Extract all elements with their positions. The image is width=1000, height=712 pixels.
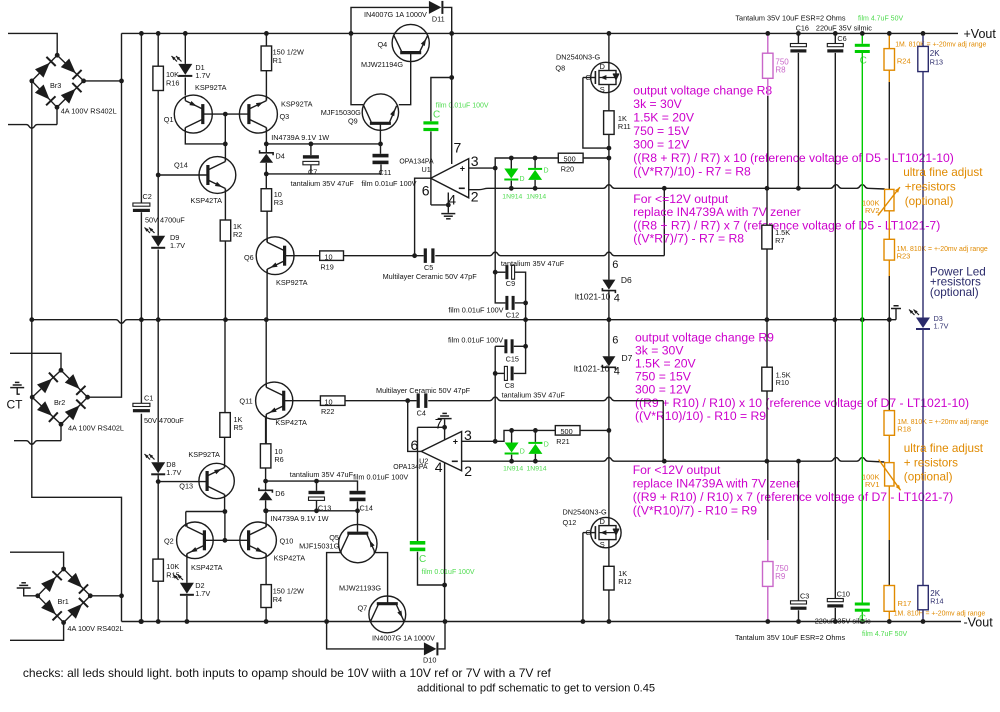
wire U1 pin2 rail <box>469 185 885 190</box>
svg-text:4A 100V RS402L: 4A 100V RS402L <box>61 106 117 115</box>
svg-text:MJW21193G: MJW21193G <box>339 584 381 593</box>
svg-text:IN4007G 1A 1000V: IN4007G 1A 1000V <box>364 10 427 19</box>
svg-text:+resistors: +resistors <box>905 181 956 194</box>
wire pin3 column down <box>494 168 496 272</box>
wire Q13 emitter down <box>224 495 226 512</box>
svg-text:KSP92TA: KSP92TA <box>188 450 220 459</box>
wire Q10 collector up <box>265 511 267 527</box>
svg-text:3k = 30V: 3k = 30V <box>635 344 684 358</box>
op-amp U1 OPA134PA <box>431 159 469 198</box>
svg-text:IN4739A 9.1V 1W: IN4739A 9.1V 1W <box>271 133 329 142</box>
wire Q2 emitter to D2 <box>186 554 188 583</box>
svg-text:2: 2 <box>471 189 479 205</box>
svg-text:7: 7 <box>454 139 462 155</box>
svg-text:1M. 810K = +-20mv adj range: 1M. 810K = +-20mv adj range <box>895 41 986 48</box>
svg-text:C11: C11 <box>379 168 392 177</box>
svg-text:DN2540N3-G: DN2540N3-G <box>556 53 601 62</box>
svg-text:R20: R20 <box>561 164 574 173</box>
resistor R2 <box>220 220 231 241</box>
node test point tick on mid rail <box>891 306 901 309</box>
wire U2 pin2 rail 461 <box>462 458 885 462</box>
resistor R13 (navy) <box>922 33 924 46</box>
wire U1 pin4 and ground <box>431 193 448 205</box>
ground Br1 left <box>17 587 31 589</box>
svg-text:Q4: Q4 <box>378 40 388 49</box>
svg-text:1.7V: 1.7V <box>934 322 949 331</box>
resistor R3 <box>265 174 267 189</box>
capacitor C5 multilayer <box>424 248 427 263</box>
svg-text:Q1: Q1 <box>164 115 174 124</box>
ground U1 <box>441 213 455 215</box>
junction dots bottom rail <box>139 619 144 624</box>
wire R5 to mid rail <box>224 320 226 413</box>
transistor Q11 KSP42TA <box>256 382 293 419</box>
wire rail400 right with hops <box>428 397 663 401</box>
transistor Q3 KSP92TA <box>239 95 277 133</box>
svg-text:1.5K = 20V: 1.5K = 20V <box>635 357 697 371</box>
svg-text:Tantalum 35V 10uF ESR=2 Ohms: Tantalum 35V 10uF ESR=2 Ohms <box>735 13 845 22</box>
svg-text:lt1021-10: lt1021-10 <box>575 291 611 301</box>
svg-text:Q6: Q6 <box>244 253 254 262</box>
capacitor C15 film <box>495 345 504 347</box>
wire Q8 drain from +rail <box>608 33 610 62</box>
wire C15 column from mid rail <box>525 320 527 347</box>
wire zener row lower <box>266 173 381 175</box>
svg-text:lt1021-10: lt1021-10 <box>574 364 610 374</box>
svg-text:750 = 15V: 750 = 15V <box>633 124 690 138</box>
wire +V top rail <box>122 32 959 34</box>
led D1 <box>178 64 192 75</box>
svg-text:KSP42TA: KSP42TA <box>191 563 223 572</box>
capacitor C12 film <box>495 272 505 303</box>
svg-text:3k = 30V: 3k = 30V <box>633 97 682 111</box>
wire -V bottom rail <box>122 621 962 623</box>
transistor Q8 DN2540N3-G MOSFET <box>591 62 621 92</box>
resistor R24 (orange) <box>888 33 890 48</box>
wire R21 net <box>495 430 555 441</box>
wire Q6 emitter to mid rail <box>266 269 268 320</box>
wire R21 to D7 column <box>580 429 609 431</box>
ground U2 (inverted) <box>438 418 452 420</box>
capacitor C6 <box>834 33 836 43</box>
svg-text:R12: R12 <box>618 577 631 586</box>
svg-text:C: C <box>419 554 426 565</box>
svg-text:D: D <box>600 517 606 526</box>
wire Q6 collector to R3 <box>266 211 268 242</box>
svg-text:U1: U1 <box>422 165 431 174</box>
svg-text:CT: CT <box>7 398 24 412</box>
svg-text:R9: R9 <box>775 572 786 581</box>
svg-text:film 0.01uF 100V: film 0.01uF 100V <box>448 336 503 345</box>
svg-text:C12: C12 <box>506 310 519 319</box>
wire zener row upper <box>266 143 380 145</box>
wire Q8 gate return <box>583 78 609 149</box>
potentiometer RV1 100K (orange) <box>885 463 894 486</box>
wire R18 to RV1 <box>888 435 890 462</box>
wire Q14 base <box>158 174 208 176</box>
svg-text:KSP42TA: KSP42TA <box>191 196 223 205</box>
svg-text:+Vout: +Vout <box>964 27 997 41</box>
svg-text:R17: R17 <box>898 599 912 608</box>
wire green film column <box>861 33 863 43</box>
svg-text:tantalium 35V 47uF: tantalium 35V 47uF <box>290 470 354 479</box>
svg-text:film 0.01uF 100V: film 0.01uF 100V <box>422 569 475 576</box>
zener D4 <box>265 144 267 153</box>
capacitor C10 <box>827 599 843 602</box>
svg-text:film 0.01uF 100V: film 0.01uF 100V <box>353 473 408 482</box>
svg-text:C14: C14 <box>360 504 373 513</box>
svg-text:((V*R7)/7) - R7 = R8: ((V*R7)/7) - R7 = R8 <box>633 232 744 246</box>
wire R11 down <box>608 134 610 279</box>
capacitor film 4.7uF green (top) <box>855 44 870 47</box>
wire Q1 emitter to junction <box>185 128 225 144</box>
svg-text:replace IN4739A with 7V zener: replace IN4739A with 7V zener <box>633 205 800 219</box>
wire R6 to zener junction <box>265 468 267 481</box>
wire AC stub lower (hop over CT vertical) <box>8 125 57 129</box>
svg-text:R11: R11 <box>618 122 631 131</box>
svg-text:3: 3 <box>471 153 479 169</box>
capacitor C14 film <box>350 491 366 495</box>
resistor R5 <box>220 413 231 438</box>
svg-text:300 = 12V: 300 = 12V <box>633 137 690 151</box>
svg-text:4A 100V RS402L: 4A 100V RS402L <box>67 624 123 633</box>
junction dots mid rail <box>29 317 34 322</box>
wire U1 output to rail256 <box>415 178 431 256</box>
wire Q2 base to Q10 <box>204 539 248 541</box>
svg-text:D10: D10 <box>423 655 436 664</box>
svg-text:2: 2 <box>464 463 472 479</box>
resistor R10 <box>766 320 768 368</box>
svg-text:S: S <box>600 540 605 549</box>
svg-text:C5: C5 <box>424 263 433 272</box>
svg-text:50V 4700uF: 50V 4700uF <box>144 416 184 425</box>
capacitor C4 multilayer <box>417 393 420 408</box>
led D8 <box>151 462 165 473</box>
led D3 (navy) <box>916 318 930 329</box>
svg-text:R1: R1 <box>273 56 282 65</box>
svg-text:4: 4 <box>435 459 443 475</box>
svg-text:4A 100V RS402L: 4A 100V RS402L <box>68 423 124 432</box>
svg-text:7: 7 <box>435 415 443 431</box>
transistor Q2 KSP42TA <box>177 522 214 559</box>
svg-text:D4: D4 <box>276 151 285 160</box>
wire D3 down to R14 <box>922 330 924 586</box>
led D9 <box>151 236 165 247</box>
wire U1 pin3 <box>469 167 496 169</box>
wire R17 to -rail <box>888 611 890 621</box>
capacitor C2 <box>133 203 150 206</box>
svg-text:Q11: Q11 <box>239 396 252 405</box>
capacitor C7 tantalum <box>310 144 312 155</box>
wire Q14 collector up <box>224 144 226 162</box>
svg-text:For <=12V output: For <=12V output <box>633 192 728 206</box>
svg-text:R22: R22 <box>321 407 334 416</box>
wire Q12 gate down <box>582 533 584 622</box>
svg-text:1M. 810H = +-20mv adj range: 1M. 810H = +-20mv adj range <box>894 611 986 618</box>
wire zener row lower (bottom half) <box>266 510 358 512</box>
wire opamp U1 output rail <box>344 255 424 257</box>
wire pin3' column down to U2 <box>494 373 496 441</box>
capacitor C11 film <box>380 144 382 154</box>
wire Br2 top AC lead <box>10 353 61 370</box>
wire Br1 bottom AC lead <box>10 623 64 641</box>
svg-text:(optional): (optional) <box>930 286 979 299</box>
wire RV1 down to R17 <box>888 486 890 540</box>
svg-text:Q9: Q9 <box>348 117 358 126</box>
wire R16/D9/D8/R15 column <box>157 33 159 66</box>
transistor Q12 DN2540N3-G MOSFET <box>591 517 621 547</box>
diode 1N914 a (down) <box>504 169 518 179</box>
wire link rail400 to rail461 <box>662 401 664 462</box>
svg-text:MJF15031G: MJF15031G <box>299 541 339 550</box>
svg-text:((R9 + R10) / R10) x 10 (refer: ((R9 + R10) / R10) x 10 (reference volta… <box>635 396 969 410</box>
svg-text:Br2: Br2 <box>54 398 65 407</box>
svg-text:C2: C2 <box>143 192 152 201</box>
bridge rectifier Br3 <box>32 55 84 107</box>
svg-text:300 = 12V: 300 = 12V <box>635 383 692 397</box>
svg-text:C16: C16 <box>796 24 809 33</box>
svg-text:C15: C15 <box>506 354 519 363</box>
resistor R7 <box>766 188 768 225</box>
svg-text:+ resistors: + resistors <box>904 456 958 469</box>
ground CT symbol <box>10 387 24 389</box>
svg-text:10: 10 <box>325 252 333 261</box>
resistor R23 (orange) <box>884 239 895 260</box>
wire Q11 emitter to R6 <box>265 414 267 444</box>
diode 1N914 c (down) <box>511 430 513 442</box>
svg-text:tantalium 35V 47uF: tantalium 35V 47uF <box>501 259 565 268</box>
svg-text:KSP92TA: KSP92TA <box>195 83 227 92</box>
wire link rail256 to rail188 <box>663 188 665 255</box>
svg-text:(optional): (optional) <box>905 195 954 208</box>
svg-text:Q3: Q3 <box>280 112 290 121</box>
svg-text:10: 10 <box>325 397 333 406</box>
svg-text:750 = 15V: 750 = 15V <box>635 370 692 384</box>
wire AC stub top-left <box>8 33 57 55</box>
svg-text:MJF15030G: MJF15030G <box>321 108 361 117</box>
svg-text:50V 4700uF: 50V 4700uF <box>145 215 185 224</box>
svg-text:DN2540N3-G: DN2540N3-G <box>563 507 608 516</box>
wire Br3/Br2 plus vertical <box>88 33 122 397</box>
svg-text:Q12: Q12 <box>563 518 577 527</box>
wire U2 output to rail400 <box>408 401 422 452</box>
wire zener row upper (bottom half) <box>266 481 358 491</box>
capacitor C film green (U1 bypass) <box>423 121 438 124</box>
resistor R22 <box>320 396 345 406</box>
diode 1N914 b (up) <box>528 170 542 180</box>
wire R12 to -rail <box>608 590 610 622</box>
svg-text:D: D <box>600 62 606 71</box>
svg-text:Br3: Br3 <box>50 81 61 90</box>
resistor R16 <box>153 66 164 90</box>
wire U2 pin4 down to -rail <box>444 463 446 622</box>
wire Q1 base to Q3 <box>203 113 249 115</box>
svg-text:MJW21194G: MJW21194G <box>361 60 403 69</box>
svg-text:S: S <box>600 85 605 94</box>
svg-text:Q7: Q7 <box>358 603 368 612</box>
wire Q1Q3 junction vertical <box>224 114 226 144</box>
svg-text:U2: U2 <box>419 456 428 465</box>
svg-text:Q2: Q2 <box>164 536 174 545</box>
resistor R6 <box>265 418 267 444</box>
svg-text:RV2: RV2 <box>865 206 879 215</box>
svg-text:C: C <box>859 613 866 624</box>
potentiometer RV2 100K (orange) <box>885 189 894 210</box>
resistor R18 (orange) <box>884 411 895 436</box>
svg-text:1.7V: 1.7V <box>195 71 210 80</box>
svg-text:C1: C1 <box>144 394 153 403</box>
svg-text:additional to pdf schematic to: additional to pdf schematic to get to ve… <box>417 683 655 695</box>
svg-text:IN4007G 1A 1000V: IN4007G 1A 1000V <box>372 633 435 642</box>
svg-text:1.5K = 20V: 1.5K = 20V <box>633 110 695 124</box>
resistor R21 <box>555 426 580 436</box>
svg-text:500: 500 <box>564 155 576 164</box>
wire Q11 collector to mid rail <box>265 320 267 388</box>
svg-text:D7: D7 <box>622 353 633 363</box>
svg-text:R14: R14 <box>930 597 943 606</box>
wire Q13/Q2 base link vertical <box>224 512 226 541</box>
svg-text:Multilayer Ceramic 50V 47pF: Multilayer Ceramic 50V 47pF <box>376 386 471 395</box>
svg-text:R5: R5 <box>234 423 243 432</box>
svg-text:R2: R2 <box>233 230 242 239</box>
resistor R20 <box>558 153 583 163</box>
wire Q9 left leg to +rail <box>351 33 363 104</box>
svg-text:500: 500 <box>561 427 573 436</box>
zener D6 (IN4739A) <box>265 481 267 490</box>
svg-text:D6: D6 <box>621 275 632 285</box>
wire C6 column down <box>834 53 836 599</box>
svg-text:checks: all leds should light.: checks: all leds should light. both inpu… <box>23 666 552 680</box>
led D2 <box>180 583 194 594</box>
wire Q2 collector junction <box>186 511 225 513</box>
wire Q4 base down to Q9 <box>399 53 411 105</box>
wire rail400 mid <box>345 400 417 402</box>
svg-text:C: C <box>860 55 867 66</box>
svg-text:((V*R7)/10) - R7 = R8: ((V*R7)/10) - R7 = R8 <box>633 164 751 178</box>
resistor R14 (navy) <box>918 586 929 610</box>
transistor Q1 KSP92TA <box>174 95 212 133</box>
svg-text:((V*R10)/7) - R10 = R9: ((V*R10)/7) - R10 = R9 <box>633 504 758 518</box>
svg-text:D11: D11 <box>432 15 445 24</box>
svg-text:R10: R10 <box>776 378 789 387</box>
svg-text:Q13: Q13 <box>179 482 193 491</box>
svg-text:KSP92TA: KSP92TA <box>276 278 308 287</box>
svg-text:1.7V: 1.7V <box>166 468 181 477</box>
capacitor C8 tantalum <box>494 346 496 373</box>
svg-text:film 0.01uF 100V: film 0.01uF 100V <box>448 306 503 315</box>
transistor Q14 KSP42TA <box>199 157 236 194</box>
transistor Q4 MJW21194G <box>392 24 429 61</box>
wire pin3 net diode stubs <box>510 158 512 169</box>
svg-text:Q14: Q14 <box>174 161 188 170</box>
svg-text:4: 4 <box>614 292 620 304</box>
wire Q9 base stem <box>379 123 381 144</box>
svg-text:KSP92TA: KSP92TA <box>281 99 313 108</box>
wire Q8 source to R11 <box>608 93 610 111</box>
svg-text:(optional): (optional) <box>904 471 953 484</box>
resistor R1 <box>261 46 272 71</box>
capacitor C1 <box>133 403 150 406</box>
wire mid 0V rail <box>32 320 896 324</box>
svg-text:R21: R21 <box>556 437 569 446</box>
svg-text:ultra fine adjust: ultra fine adjust <box>903 166 983 179</box>
svg-text:D: D <box>520 176 525 183</box>
wire Br2 bottom AC lead (hop over CT vertical) <box>14 441 61 445</box>
resistor R8 (pink) <box>767 33 769 53</box>
svg-text:D: D <box>544 442 549 449</box>
wire Q10 emitter to R4 <box>265 554 267 585</box>
svg-text:tantalium 35V 47uF: tantalium 35V 47uF <box>291 179 355 188</box>
diode D11 loop <box>351 7 429 33</box>
svg-text:KSP42TA: KSP42TA <box>275 418 307 427</box>
svg-text:Multilayer Ceramic 50V 47pF: Multilayer Ceramic 50V 47pF <box>383 272 478 281</box>
capacitor film 4.7uF green (bottom) <box>855 603 870 606</box>
svg-text:R6: R6 <box>274 455 283 464</box>
svg-text:film 0.01uF 100V: film 0.01uF 100V <box>361 179 416 188</box>
svg-text:ultra fine adjust: ultra fine adjust <box>904 442 984 455</box>
svg-text:1.7V: 1.7V <box>170 241 185 250</box>
capacitor C13 tantalum <box>316 481 318 491</box>
wire U2 pin7 ground node <box>418 427 445 440</box>
svg-text:Br1: Br1 <box>58 597 69 606</box>
svg-text:tantalium 35V 47uF: tantalium 35V 47uF <box>502 391 566 400</box>
wire R23 down to mid rail <box>888 260 890 276</box>
svg-text:+: + <box>453 437 458 447</box>
bridge rectifier Br1 <box>38 569 91 623</box>
wire U2 pin3 input <box>462 440 496 442</box>
wire mid rail to R18 <box>888 320 890 411</box>
wire R14 to -rail <box>922 610 924 622</box>
wire C2/C1 column <box>140 33 142 203</box>
transistor Q13 KSP92TA <box>199 463 234 498</box>
wire CT vertical (Br3 left to bottom junction) <box>32 81 122 622</box>
svg-text:C9: C9 <box>506 279 515 288</box>
svg-text:R19: R19 <box>320 262 333 271</box>
svg-text:1N914: 1N914 <box>502 194 522 201</box>
svg-text:6: 6 <box>612 259 618 271</box>
diode D10 loop <box>327 622 424 649</box>
capacitor C9 tantalum <box>495 271 505 273</box>
svg-text:R16: R16 <box>166 79 179 88</box>
svg-text:((R8 + R7) / R7) x 10 (referen: ((R8 + R7) / R7) x 10 (reference voltage… <box>633 151 954 165</box>
diode 1N914 d (up) <box>534 430 536 442</box>
wire Q13 collector to R5 <box>224 437 226 467</box>
op-amp U2 OPA134PA <box>421 432 461 471</box>
wire U2 rail400 (Q11 base to link) <box>285 400 321 402</box>
wire D7 down to Q12 <box>608 430 610 517</box>
svg-text:film 0.01uF 100V: film 0.01uF 100V <box>436 103 489 110</box>
svg-text:replace IN4739A with 7V zener: replace IN4739A with 7V zener <box>633 477 800 491</box>
svg-text:1N914: 1N914 <box>503 466 523 473</box>
wire Q3 emitter to zener wire <box>265 128 267 144</box>
svg-text:IN4739A 9.1V 1W: IN4739A 9.1V 1W <box>271 514 329 523</box>
resistor R12 <box>604 566 615 590</box>
wire D1 column <box>184 33 186 64</box>
svg-text:6: 6 <box>612 335 618 347</box>
svg-text:((R9 + R10) / R10) x 7 (refere: ((R9 + R10) / R10) x 7 (reference voltag… <box>633 490 954 504</box>
transistor Q5 MJF15031G <box>339 524 377 562</box>
wire RV2 to R23 <box>888 211 890 240</box>
wire Q14 emitter to R2 <box>224 189 226 221</box>
svg-text:4: 4 <box>614 365 620 377</box>
svg-text:film 4.7uF 50V: film 4.7uF 50V <box>862 631 907 638</box>
capacitor C film green (U2 bypass) <box>410 541 426 545</box>
svg-text:C3: C3 <box>800 592 809 601</box>
resistor R4 <box>261 585 272 608</box>
resistor R17 (orange) <box>884 586 895 612</box>
transistor Q7 MJW21193G <box>369 596 406 633</box>
svg-text:RV1: RV1 <box>865 480 879 489</box>
